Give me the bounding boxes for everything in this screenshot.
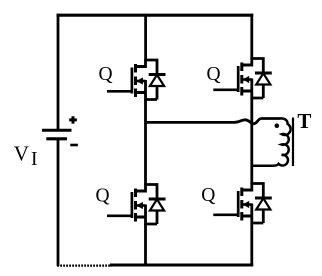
svg-text:I: I xyxy=(31,149,38,170)
wire: middle leg mid (Q1 source to Q3 drain, node A) xyxy=(144,100,147,186)
svg-text:Q: Q xyxy=(99,64,113,85)
wire: bottom bus dotted left part xyxy=(57,265,112,267)
plus sign xyxy=(69,116,77,123)
svg-text:Q: Q xyxy=(201,185,215,206)
wire: right leg bottom (Q4 source to bottom bus) xyxy=(250,223,253,267)
battery VI short plate (-) xyxy=(46,137,67,140)
wire: middle leg top (bus to Q1 drain) xyxy=(144,14,147,61)
transistor Q3 (bottom-left MOSFET) xyxy=(107,184,166,226)
svg-text:Q: Q xyxy=(96,186,110,207)
wire: right leg top (bus to Q2 drain) xyxy=(250,14,253,59)
wire: middle leg bottom (Q3 source to bottom bus) xyxy=(144,224,147,267)
wire: top bus xyxy=(57,14,254,17)
transformer T primary winding xyxy=(253,118,291,165)
svg-text:V: V xyxy=(14,141,29,165)
svg-text:T: T xyxy=(297,109,311,133)
transformer core line xyxy=(292,118,294,167)
minus sign xyxy=(70,144,78,147)
wire: right leg mid (Q2 source to Q4 drain, node B) xyxy=(250,98,253,185)
battery VI long plate (+) xyxy=(42,129,72,132)
wire: left rail lower xyxy=(57,139,60,266)
transistor Q4 (bottom-right MOSFET) xyxy=(213,183,272,225)
wire: node A to transformer primary top (crossover hop over right leg) xyxy=(147,119,281,124)
transistor Q1 (top-left MOSFET) xyxy=(107,59,166,101)
transformer phase dot xyxy=(275,123,280,128)
wire: left rail upper (source + to top bus) xyxy=(57,14,60,131)
wire: bottom bus solid right part xyxy=(110,263,253,266)
transistor Q2 (top-right MOSFET) xyxy=(213,58,272,100)
svg-text:Q: Q xyxy=(207,64,221,85)
